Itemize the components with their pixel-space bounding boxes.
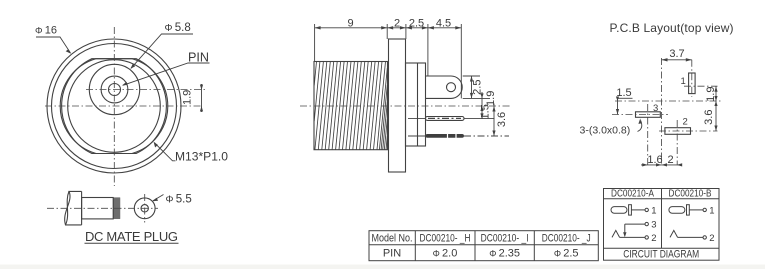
svg-text:3-(3.0x0.8): 3-(3.0x0.8) <box>580 125 631 137</box>
svg-text:1.5: 1.5 <box>480 104 492 119</box>
svg-text:Φ 2.0: Φ 2.0 <box>433 247 458 259</box>
svg-text:1.9: 1.9 <box>485 91 497 106</box>
svg-text:2: 2 <box>683 117 688 128</box>
svg-text:3.6: 3.6 <box>703 110 715 125</box>
svg-text:DC00210- _I: DC00210- _I <box>481 233 529 245</box>
svg-text:PIN: PIN <box>188 50 209 65</box>
svg-text:DC00210- _J: DC00210- _J <box>542 233 591 245</box>
svg-text:1.9: 1.9 <box>705 87 717 102</box>
svg-text:1: 1 <box>709 205 714 216</box>
svg-text:2: 2 <box>667 154 673 166</box>
svg-text:PIN: PIN <box>383 247 401 259</box>
svg-text:3: 3 <box>653 103 658 114</box>
svg-text:2: 2 <box>651 233 656 244</box>
svg-text:2: 2 <box>394 18 400 30</box>
svg-text:1.6: 1.6 <box>647 154 662 166</box>
svg-text:1.5: 1.5 <box>616 87 631 99</box>
svg-text:2.5: 2.5 <box>409 18 424 30</box>
svg-text:CIRCUIT DIAGRAM: CIRCUIT DIAGRAM <box>623 248 699 260</box>
svg-text:9: 9 <box>347 18 353 30</box>
svg-text:1: 1 <box>681 76 686 87</box>
svg-text:M13*P1.0: M13*P1.0 <box>175 150 228 164</box>
svg-text:Φ 2.35: Φ 2.35 <box>489 247 520 259</box>
svg-text:4.5: 4.5 <box>436 18 451 30</box>
svg-text:Φ 16: Φ 16 <box>35 25 57 37</box>
svg-text:Φ 5.5: Φ 5.5 <box>166 194 192 206</box>
svg-text:DC00210-A: DC00210-A <box>611 188 654 200</box>
svg-text:DC00210- _H: DC00210- _H <box>420 233 471 245</box>
svg-text:1.9: 1.9 <box>182 90 194 105</box>
svg-text:DC MATE PLUG: DC MATE PLUG <box>85 229 178 244</box>
svg-text:1: 1 <box>651 205 656 216</box>
svg-text:2: 2 <box>709 233 714 244</box>
svg-text:Φ 5.8: Φ 5.8 <box>165 22 191 34</box>
svg-text:3.7: 3.7 <box>669 48 684 60</box>
svg-text:P.C.B Layout(top view): P.C.B Layout(top view) <box>610 21 734 35</box>
svg-text:DC00210-B: DC00210-B <box>669 188 712 200</box>
svg-text:3: 3 <box>651 220 656 231</box>
svg-text:3.6: 3.6 <box>496 112 508 127</box>
svg-text:Φ 2.5: Φ 2.5 <box>554 247 579 259</box>
svg-text:2.5: 2.5 <box>472 80 484 95</box>
svg-text:Model No.: Model No. <box>372 233 413 245</box>
